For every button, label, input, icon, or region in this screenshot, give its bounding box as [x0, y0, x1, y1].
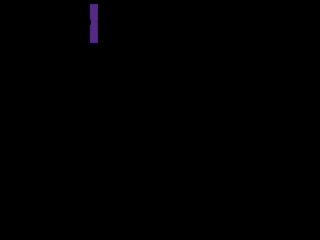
black background: [0, 0, 150, 50]
purple vertical bar (pinched at middle, soft edges): [88, 3, 99, 44]
